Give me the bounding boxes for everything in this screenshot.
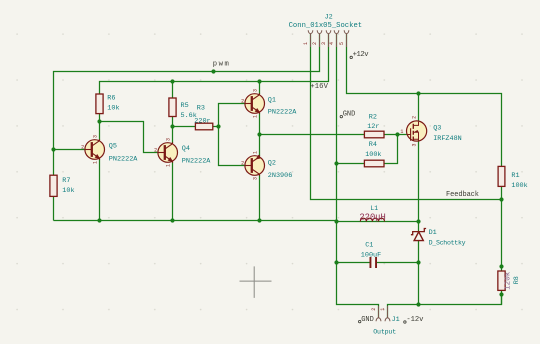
junction L1 left / GND bbox=[334, 219, 338, 223]
svg-text:Q3: Q3 bbox=[433, 125, 441, 133]
svg-text:R1: R1 bbox=[511, 172, 519, 180]
resistor R5 bbox=[169, 98, 197, 120]
wire R8 bottom stub bbox=[501, 290, 503, 304]
resistor R7 bbox=[50, 175, 75, 196]
svg-text:3: 3 bbox=[252, 177, 258, 180]
diode D1 D_Schottky bbox=[411, 229, 466, 247]
svg-text:R4: R4 bbox=[369, 141, 377, 149]
svg-text:3: 3 bbox=[321, 42, 327, 45]
junction output bottom node bbox=[416, 302, 420, 306]
svg-text:3: 3 bbox=[165, 138, 171, 141]
svg-text:Conn_01x05_Socket: Conn_01x05_Socket bbox=[289, 22, 363, 30]
svg-text:2: 2 bbox=[154, 147, 157, 153]
svg-text:5: 5 bbox=[339, 42, 345, 45]
svg-text:-12v: -12v bbox=[406, 316, 424, 324]
junction C1 left bbox=[334, 260, 338, 264]
svg-text:100uF: 100uF bbox=[361, 251, 381, 259]
svg-text:PN2222A: PN2222A bbox=[109, 155, 138, 163]
net label GND (top) bbox=[340, 111, 355, 119]
svg-text:3: 3 bbox=[411, 143, 417, 146]
net label -12v bbox=[404, 316, 424, 324]
svg-text:1: 1 bbox=[252, 151, 258, 154]
wire C1 left bbox=[337, 262, 370, 264]
wire emitter node to R2 left bbox=[260, 134, 365, 136]
svg-text:Feedback: Feedback bbox=[446, 191, 479, 199]
wire R3 left bbox=[173, 126, 196, 128]
wire pwm net: J2 pin2 down, top rail left, down to Q5 base node bbox=[54, 34, 320, 150]
svg-text:R8: R8 bbox=[513, 276, 521, 284]
svg-text:1: 1 bbox=[165, 164, 171, 167]
wire C1 right bbox=[377, 262, 419, 264]
resistor R2 bbox=[364, 114, 384, 138]
junction R6 bottom / Q5 collector bbox=[97, 119, 101, 123]
svg-text:1: 1 bbox=[380, 308, 386, 311]
resistor R1 bbox=[498, 166, 528, 190]
wire L1 run bbox=[337, 221, 419, 223]
svg-text:10k: 10k bbox=[107, 104, 119, 112]
svg-text:R5: R5 bbox=[181, 102, 189, 110]
wire Feedback net: J2 pin1 down then right bbox=[311, 34, 502, 200]
wire R4 left from GND vertical bbox=[337, 163, 365, 165]
wire R4 right and up to gate node bbox=[384, 135, 398, 164]
svg-text:3: 3 bbox=[252, 89, 258, 92]
svg-text:2: 2 bbox=[371, 308, 377, 311]
J2 pin 3 socket bbox=[326, 30, 331, 47]
junction Q1 collector on +16V rail bbox=[257, 79, 261, 83]
svg-text:Q5: Q5 bbox=[109, 142, 117, 150]
svg-text:2N3906: 2N3906 bbox=[268, 172, 292, 180]
svg-text:4: 4 bbox=[329, 42, 335, 45]
transistor Q3 IRFZ48N (N-MOSFET) bbox=[400, 116, 461, 147]
wire base-link node up to Q1 base bbox=[219, 104, 246, 127]
wire output run J1 pin1 to R8 column bbox=[388, 295, 502, 318]
wire Q2 collector down to rail bbox=[259, 175, 261, 221]
svg-text:R7: R7 bbox=[62, 177, 70, 185]
svg-text:220μH: 220μH bbox=[359, 212, 385, 222]
wire Q3 source down to switch node bbox=[418, 141, 420, 222]
capacitor C1 bbox=[361, 242, 381, 268]
wire R2 right to Q3 gate bbox=[384, 134, 407, 136]
wire Q1 collector stub on +16V rail bbox=[259, 82, 261, 95]
wire Q5 emitter down to rail bbox=[99, 159, 101, 221]
svg-text:Q1: Q1 bbox=[268, 97, 276, 105]
body diode arrow bbox=[414, 131, 419, 133]
wire R7 top stem bbox=[53, 150, 55, 176]
svg-text:PN2222A: PN2222A bbox=[268, 109, 297, 117]
svg-text:1: 1 bbox=[252, 115, 258, 118]
junction R4 left on GND vertical bbox=[334, 161, 338, 165]
wire Q2 emitter up to emitter node bbox=[259, 135, 261, 157]
svg-text:J2: J2 bbox=[325, 13, 333, 21]
junction Q4 emitter on rail bbox=[170, 218, 174, 222]
wire +12v net: J2 pin5 down, right, down to R1 bbox=[347, 34, 502, 166]
svg-text:1: 1 bbox=[400, 129, 403, 135]
svg-text:2: 2 bbox=[241, 98, 244, 104]
wire GND net: J2 pin4 long vertical to J1 pin2 bbox=[337, 34, 379, 317]
wire R5 bottom stem bbox=[172, 117, 174, 127]
junction R8 bottom bbox=[499, 292, 503, 296]
svg-text:GND: GND bbox=[343, 111, 356, 119]
svg-text:R2: R2 bbox=[369, 114, 377, 122]
svg-text:2: 2 bbox=[81, 144, 84, 150]
svg-text:L1: L1 bbox=[370, 205, 378, 212]
resistor R8 bbox=[498, 271, 521, 290]
svg-text:12r: 12r bbox=[367, 123, 379, 131]
channel dashes bbox=[412, 124, 414, 141]
connector J2 Conn_01x05_Socket bbox=[289, 13, 363, 47]
wire base-link node down to Q2 base bbox=[219, 127, 246, 166]
J2 pin 2 socket bbox=[317, 30, 322, 47]
resistor R3 bbox=[194, 104, 212, 130]
drain and source connections bbox=[413, 122, 418, 141]
junction Q5 emitter on rail bbox=[97, 218, 101, 222]
junction L1 right / switch node bbox=[416, 219, 420, 223]
junction Q1-Q2 emitters bbox=[257, 132, 261, 136]
wire feedback node down to R8 bbox=[501, 200, 503, 272]
svg-text:D1: D1 bbox=[429, 229, 437, 237]
connector J1 Output bbox=[371, 306, 400, 336]
net label GND (output) bbox=[359, 316, 374, 324]
junction R2 / R4 / Q3 gate bbox=[395, 132, 399, 136]
J1 pin 1 socket bbox=[385, 306, 390, 321]
svg-text:220r: 220r bbox=[194, 117, 210, 125]
svg-text:2: 2 bbox=[411, 116, 417, 119]
junction Q3 drain on +12v rail bbox=[416, 91, 420, 95]
junction Q2 collector on rail bbox=[257, 218, 261, 222]
junction R3 right / base link bbox=[216, 124, 220, 128]
svg-text:Output: Output bbox=[373, 329, 396, 336]
transistor Q2 2N3906 bbox=[241, 151, 292, 180]
svg-text:D_Schottky: D_Schottky bbox=[429, 239, 466, 246]
svg-text:R3: R3 bbox=[197, 104, 205, 112]
transistor Q4 PN2222A bbox=[154, 138, 211, 167]
J2 pin 5 socket bbox=[344, 30, 349, 47]
svg-text:Q4: Q4 bbox=[182, 145, 190, 153]
svg-text:PN2222A: PN2222A bbox=[182, 157, 211, 165]
node pwm label anchor bbox=[211, 69, 215, 73]
svg-text:2: 2 bbox=[241, 160, 244, 166]
wire D1 anode down to output run bbox=[418, 241, 420, 305]
junction feedback right node bbox=[499, 197, 503, 201]
junction Q5 base / R7 / pwm rail bbox=[51, 147, 55, 151]
gate pin and gate bar bbox=[407, 128, 411, 140]
J2 pin 4 socket bbox=[334, 30, 339, 47]
wire R7 bottom stem bbox=[53, 196, 55, 220]
svg-text:J1: J1 bbox=[392, 316, 400, 324]
svg-text:1: 1 bbox=[92, 161, 98, 164]
wire Q1 emitter down to emitter node bbox=[259, 113, 261, 135]
svg-text:GND: GND bbox=[361, 316, 374, 324]
svg-text:pwm: pwm bbox=[213, 61, 229, 69]
svg-text:100k: 100k bbox=[511, 182, 527, 190]
svg-text:R6: R6 bbox=[107, 94, 115, 102]
junction C1 right bbox=[416, 260, 420, 264]
svg-text:+16V: +16V bbox=[310, 83, 328, 91]
resistor R6 bbox=[96, 94, 120, 114]
wire bottom emitter rail bbox=[54, 220, 337, 222]
net label +12v bbox=[350, 51, 369, 59]
transistor Q5 PN2222A bbox=[81, 135, 138, 164]
svg-text:+12v: +12v bbox=[353, 51, 370, 59]
resistor R4 bbox=[364, 141, 384, 167]
svg-text:1: 1 bbox=[303, 42, 309, 45]
wire Q4 emitter down bbox=[172, 162, 174, 221]
svg-text:10k: 10k bbox=[62, 187, 74, 195]
svg-text:100k: 100k bbox=[365, 151, 381, 159]
wire R1 bottom stem bbox=[501, 186, 503, 199]
junction R5 / R3 / Q4 collector bbox=[170, 124, 174, 128]
wire Q5 collector node to Q4 base bbox=[100, 122, 159, 153]
inductor L1 bbox=[359, 205, 385, 222]
wire R3 right bbox=[213, 126, 219, 128]
svg-text:3: 3 bbox=[92, 135, 98, 138]
svg-text:IRFZ48N: IRFZ48N bbox=[433, 135, 462, 143]
J1 pin 2 socket bbox=[376, 306, 381, 321]
wire Q4 collector up bbox=[172, 127, 174, 144]
wire +16V rail: J2 pin3 down, left to R6 top bbox=[100, 34, 329, 94]
wire R5 top stub on +16V rail bbox=[172, 82, 174, 99]
crosshair cursor bbox=[240, 266, 272, 298]
wire Q3 drain stub bbox=[418, 94, 420, 122]
svg-text:2: 2 bbox=[312, 42, 318, 45]
junction R5 top on +16V rail bbox=[170, 79, 174, 83]
svg-text:120k: 120k bbox=[505, 271, 513, 290]
wire Q5 base from node bbox=[54, 149, 86, 151]
wire D1 cathode stub bbox=[418, 222, 420, 232]
J2 pin 1 socket bbox=[308, 30, 313, 47]
transistor Q1 PN2222A bbox=[241, 89, 297, 118]
wire R6 bottom to Q5 collector bbox=[99, 114, 101, 140]
svg-text:Q2: Q2 bbox=[268, 159, 276, 167]
svg-text:C1: C1 bbox=[365, 242, 373, 250]
junction R8 top bbox=[499, 264, 503, 268]
